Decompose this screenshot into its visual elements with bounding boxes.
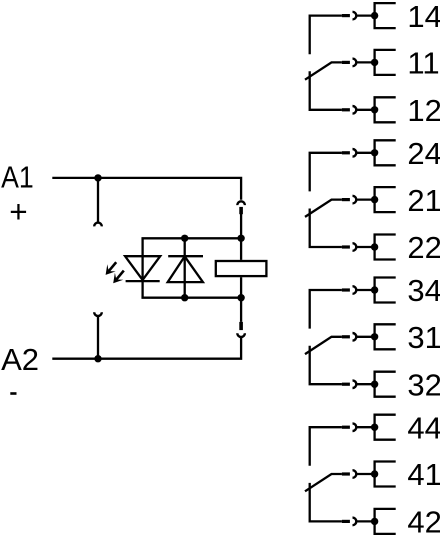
junction dot diode top bbox=[181, 235, 188, 242]
terminal label 41 bbox=[407, 457, 440, 492]
pin contact terminal 31 bbox=[342, 335, 350, 338]
junction dot diode bottom bbox=[181, 294, 188, 301]
svg-text:A1: A1 bbox=[1, 160, 34, 195]
wire socket to terminal 41 bbox=[356, 473, 374, 475]
socket contact terminal 24 bbox=[353, 149, 357, 157]
svg-text:44: 44 bbox=[407, 410, 440, 445]
terminal label 34 bbox=[407, 273, 440, 308]
switch arm common contact 21 bbox=[305, 200, 342, 217]
terminal label 42 bbox=[407, 505, 440, 540]
terminal label 21 bbox=[407, 183, 440, 218]
LED D1 cathode bar bbox=[126, 280, 160, 282]
terminal label 31 bbox=[407, 320, 440, 355]
wire coil bottom to node bbox=[240, 277, 242, 298]
pin contact on coil branch bottom bbox=[239, 322, 243, 330]
junction dot terminal 42 bbox=[371, 518, 378, 525]
wire A2 stub from socket down to A2 wire bbox=[97, 316, 99, 359]
terminal bracket 32 bbox=[375, 372, 396, 397]
svg-text:24: 24 bbox=[407, 136, 440, 171]
wire socket to terminal 12 bbox=[356, 109, 374, 111]
socket contact terminal 12 bbox=[353, 106, 357, 114]
terminal bracket 24 bbox=[375, 140, 396, 165]
node junction dot coil branch bottom bbox=[237, 294, 244, 301]
svg-text:32: 32 bbox=[407, 367, 440, 402]
svg-text:+: + bbox=[9, 193, 27, 229]
pin contact terminal 14 bbox=[342, 14, 350, 17]
terminal label A1 bbox=[1, 160, 34, 195]
svg-text:12: 12 bbox=[407, 93, 440, 128]
terminal label 12 bbox=[407, 93, 440, 128]
socket contact on coil branch top bbox=[237, 201, 245, 205]
pin contact terminal 32 bbox=[342, 383, 350, 386]
svg-text:34: 34 bbox=[407, 273, 440, 308]
pin contact terminal 21 bbox=[342, 198, 350, 201]
junction dot terminal 34 bbox=[371, 286, 378, 293]
pin contact terminal 11 bbox=[342, 61, 350, 64]
junction dot terminal 21 bbox=[371, 196, 378, 203]
socket contact terminal 11 bbox=[353, 59, 357, 67]
terminal label 32 bbox=[407, 367, 440, 402]
svg-text:42: 42 bbox=[407, 505, 440, 540]
svg-text:11: 11 bbox=[407, 46, 439, 81]
wire bus lower segment and fixed contact 22 bbox=[310, 209, 342, 248]
junction dot terminal 11 bbox=[371, 59, 378, 66]
wire socket to terminal 11 bbox=[356, 61, 374, 63]
wire socket to terminal 32 bbox=[356, 383, 374, 385]
terminal bracket 44 bbox=[375, 415, 396, 440]
socket contact terminal 42 bbox=[353, 518, 357, 526]
wire coil branch bottom node to pin bbox=[240, 298, 242, 322]
LED D1 triangle bbox=[125, 256, 160, 280]
pin contact terminal 42 bbox=[342, 520, 350, 523]
terminal bracket 34 bbox=[375, 278, 396, 303]
socket contact terminal 41 bbox=[353, 470, 357, 478]
terminal label A2 bbox=[1, 342, 39, 377]
junction dot terminal 22 bbox=[371, 243, 378, 250]
junction dot terminal 12 bbox=[371, 106, 378, 113]
wire fixed contact 24 and bus upper segment bbox=[310, 153, 342, 192]
switch arm common contact 31 bbox=[305, 337, 342, 354]
terminal label 44 bbox=[407, 410, 440, 445]
terminal bracket 31 bbox=[375, 324, 396, 349]
diode D2 triangle bbox=[168, 256, 203, 282]
wire LED branch vertical bbox=[141, 238, 143, 297]
wire socket to terminal 14 bbox=[356, 14, 374, 16]
terminal bracket 21 bbox=[375, 187, 396, 212]
wire socket to terminal 42 bbox=[356, 520, 374, 522]
wire socket to terminal 34 bbox=[356, 289, 374, 291]
socket contact on coil branch bottom bbox=[237, 333, 245, 337]
node junction dot coil branch top bbox=[237, 235, 244, 242]
switch arm common contact 11 bbox=[305, 62, 342, 79]
pin contact terminal 24 bbox=[342, 151, 350, 154]
svg-text:22: 22 bbox=[407, 230, 440, 265]
socket contact terminal 32 bbox=[353, 380, 357, 388]
wire socket to terminal 21 bbox=[356, 198, 374, 200]
relay coil K1 box bbox=[216, 261, 267, 276]
terminal bracket 41 bbox=[375, 462, 396, 487]
LED D1 emission arrow lower bbox=[113, 271, 124, 284]
LED D1 emission arrow upper bbox=[106, 262, 117, 275]
wire top rail bbox=[141, 237, 241, 239]
pin contact terminal 12 bbox=[342, 108, 350, 111]
pin contact on coil branch top bbox=[239, 207, 243, 214]
wire socket to terminal 31 bbox=[356, 336, 374, 338]
socket contact terminal 31 bbox=[353, 333, 357, 341]
junction dot on A1 wire bbox=[94, 174, 101, 181]
junction dot terminal 32 bbox=[371, 381, 378, 388]
terminal bracket 12 bbox=[375, 97, 396, 122]
wire A1 from terminal to coil branch corner bbox=[52, 178, 241, 200]
socket contact terminal 34 bbox=[353, 286, 357, 294]
terminal label 11 bbox=[407, 46, 439, 81]
pin contact terminal 44 bbox=[342, 426, 350, 429]
wire bottom rail bbox=[141, 297, 241, 299]
socket contact terminal 14 bbox=[353, 12, 357, 20]
wire socket to terminal 24 bbox=[356, 152, 374, 154]
wire A2 from terminal to coil branch corner bbox=[52, 337, 241, 358]
wire fixed contact 14 and bus upper segment bbox=[310, 16, 342, 55]
terminal bracket 11 bbox=[375, 50, 396, 75]
svg-text:A2: A2 bbox=[1, 342, 39, 377]
svg-text:31: 31 bbox=[407, 320, 440, 355]
junction dot terminal 44 bbox=[371, 424, 378, 431]
socket contact terminal 22 bbox=[353, 243, 357, 251]
socket contact (female) on A1 stub bbox=[94, 223, 102, 227]
pin contact terminal 22 bbox=[342, 245, 350, 248]
svg-text:41: 41 bbox=[407, 457, 440, 492]
wire coil branch top pin to node bbox=[240, 214, 242, 238]
wire fixed contact 34 and bus upper segment bbox=[310, 290, 342, 329]
wire bus lower segment and fixed contact 12 bbox=[310, 71, 342, 110]
switch arm common contact 41 bbox=[305, 474, 342, 491]
terminal label 14 bbox=[407, 0, 440, 34]
diode D2 cathode bar bbox=[168, 255, 203, 257]
terminal label 22 bbox=[407, 230, 440, 265]
wire bus lower segment and fixed contact 32 bbox=[310, 346, 342, 385]
terminal bracket 42 bbox=[375, 509, 396, 534]
terminal label 24 bbox=[407, 136, 440, 171]
wire socket to terminal 22 bbox=[356, 246, 374, 248]
wire node to coil top bbox=[240, 238, 242, 260]
pin contact terminal 41 bbox=[342, 472, 350, 475]
junction dot terminal 24 bbox=[371, 149, 378, 156]
wire A1 stub down to socket bbox=[97, 178, 99, 222]
pin contact terminal 34 bbox=[342, 288, 350, 291]
junction dot terminal 31 bbox=[371, 333, 378, 340]
socket contact (female) on A2 stub bbox=[94, 312, 102, 316]
junction dot terminal 41 bbox=[371, 470, 378, 477]
junction dot terminal 14 bbox=[371, 12, 378, 19]
wire socket to terminal 44 bbox=[356, 426, 374, 428]
wire fixed contact 44 and bus upper segment bbox=[310, 427, 342, 466]
svg-text:14: 14 bbox=[407, 0, 440, 34]
wire diode branch vertical bbox=[184, 238, 186, 297]
polarity label - bbox=[10, 392, 16, 395]
svg-text:21: 21 bbox=[407, 183, 440, 218]
wire bus lower segment and fixed contact 42 bbox=[310, 483, 342, 522]
junction dot on A2 wire bbox=[94, 355, 101, 362]
polarity label + bbox=[9, 193, 27, 229]
socket contact terminal 44 bbox=[353, 423, 357, 431]
terminal bracket 22 bbox=[375, 235, 396, 260]
socket contact terminal 21 bbox=[353, 196, 357, 204]
terminal bracket 14 bbox=[375, 3, 396, 28]
